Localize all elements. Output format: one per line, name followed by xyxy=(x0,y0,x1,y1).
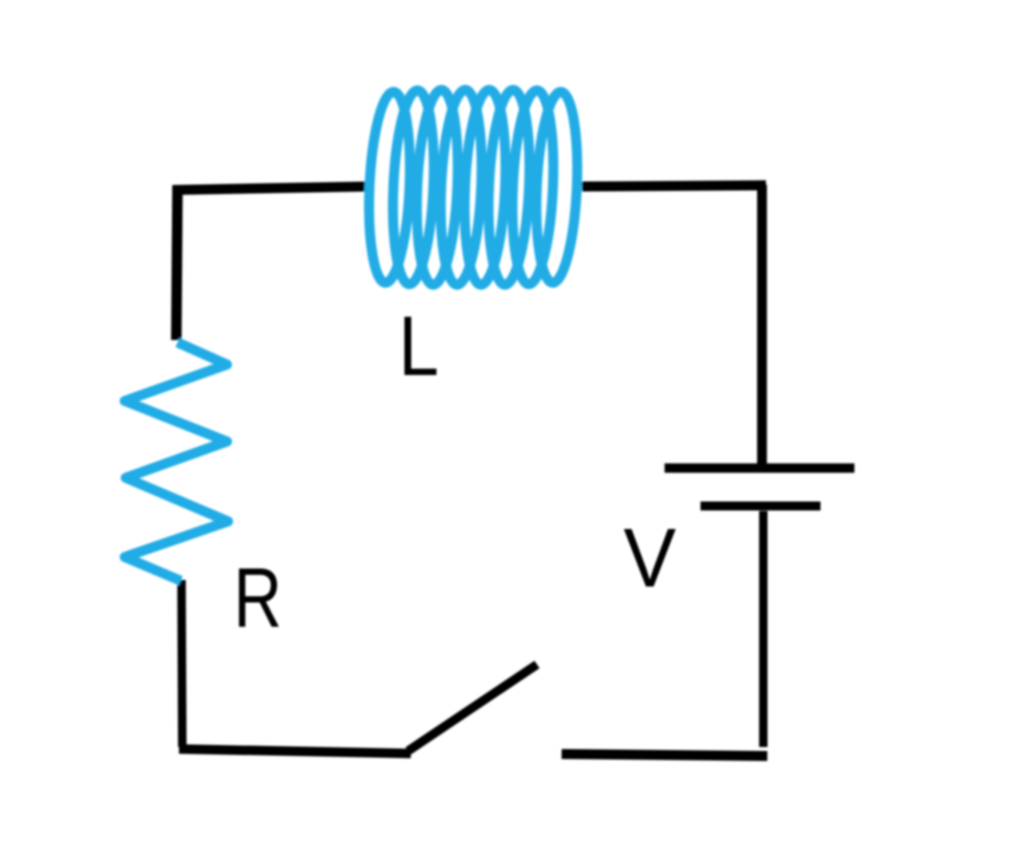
svg-text:L: L xyxy=(399,299,439,393)
svg-text:R: R xyxy=(234,551,283,645)
svg-text:V: V xyxy=(624,511,677,605)
